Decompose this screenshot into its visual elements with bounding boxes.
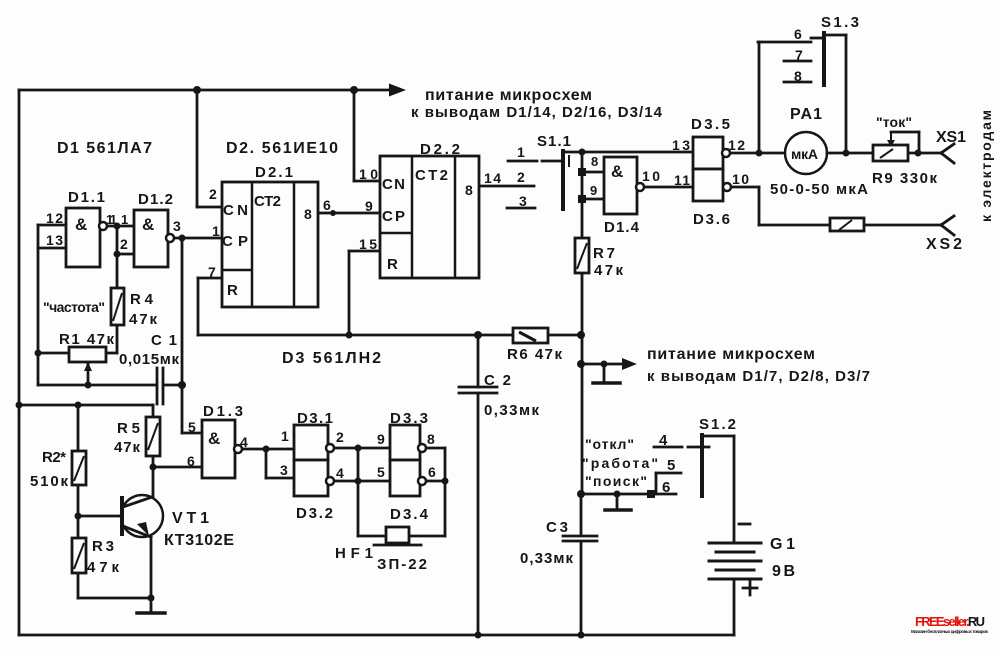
svg-text:8: 8 bbox=[304, 206, 312, 222]
svg-text:VT1: VT1 bbox=[172, 510, 209, 527]
svg-text:PA1: PA1 bbox=[790, 106, 822, 123]
svg-text:S1.1: S1.1 bbox=[537, 133, 571, 150]
svg-text:D3.1: D3.1 bbox=[297, 410, 333, 427]
svg-text:12: 12 bbox=[728, 137, 745, 153]
svg-text:9: 9 bbox=[365, 198, 373, 214]
svg-text:XS2: XS2 bbox=[926, 236, 962, 253]
svg-text:HF1: HF1 bbox=[335, 545, 373, 562]
svg-text:S1.2: S1.2 bbox=[699, 416, 736, 433]
svg-text:R9 330к: R9 330к bbox=[872, 170, 937, 187]
svg-text:D1.1: D1.1 bbox=[68, 189, 105, 206]
svg-text:&: & bbox=[75, 215, 87, 234]
svg-text:D3 561ЛН2: D3 561ЛН2 bbox=[282, 350, 381, 367]
svg-text:&: & bbox=[142, 215, 154, 234]
svg-text:&: & bbox=[611, 162, 623, 181]
svg-text:CN: CN bbox=[382, 176, 405, 193]
svg-text:1: 1 bbox=[121, 212, 128, 227]
svg-text:8: 8 bbox=[591, 154, 598, 169]
svg-text:14: 14 bbox=[484, 170, 501, 186]
svg-text:13: 13 bbox=[46, 232, 63, 248]
svg-text:3: 3 bbox=[280, 462, 288, 478]
svg-text:10: 10 bbox=[732, 171, 749, 187]
svg-text:1: 1 bbox=[212, 223, 220, 239]
svg-text:7: 7 bbox=[795, 47, 803, 63]
svg-text:4: 4 bbox=[240, 434, 248, 450]
svg-text:3: 3 bbox=[519, 193, 527, 209]
svg-text:0,33мк: 0,33мк bbox=[484, 402, 539, 419]
svg-text:D2.2: D2.2 bbox=[420, 141, 460, 158]
svg-text:FREEseller.RU: FREEseller.RU bbox=[915, 614, 985, 629]
svg-text:"работа": "работа" bbox=[582, 455, 658, 471]
svg-text:50-0-50 мкА: 50-0-50 мкА bbox=[770, 181, 868, 198]
svg-text:2: 2 bbox=[517, 169, 525, 185]
svg-text:CT2: CT2 bbox=[415, 167, 448, 184]
svg-text:47к: 47к bbox=[129, 311, 157, 328]
svg-text:9В: 9В bbox=[772, 563, 795, 580]
svg-text:"ток": "ток" bbox=[876, 114, 912, 130]
svg-text:6: 6 bbox=[187, 453, 195, 469]
svg-text:к выводам D1/14, D2/16, D3/14: к выводам D1/14, D2/16, D3/14 bbox=[411, 104, 663, 121]
svg-text:ЗП-22: ЗП-22 bbox=[377, 556, 427, 573]
svg-text:D1 561ЛА7: D1 561ЛА7 bbox=[57, 140, 152, 157]
svg-text:"частота": "частота" bbox=[43, 299, 105, 315]
svg-text:6: 6 bbox=[794, 26, 802, 42]
svg-text:R6 47к: R6 47к bbox=[507, 346, 562, 363]
svg-text:2: 2 bbox=[336, 429, 344, 445]
svg-text:5: 5 bbox=[188, 419, 196, 435]
svg-text:47к: 47к bbox=[594, 262, 623, 279]
svg-text:D1.4: D1.4 bbox=[604, 219, 640, 236]
svg-text:к электродам: к электродам bbox=[978, 110, 994, 222]
svg-text:2: 2 bbox=[209, 186, 217, 202]
svg-text:&: & bbox=[208, 429, 220, 448]
svg-text:D1.2: D1.2 bbox=[138, 191, 173, 208]
svg-text:11: 11 bbox=[106, 212, 117, 227]
svg-text:0,015мк: 0,015мк bbox=[119, 351, 179, 368]
svg-text:11: 11 bbox=[674, 172, 690, 188]
svg-text:4: 4 bbox=[336, 465, 344, 481]
svg-text:R: R bbox=[227, 282, 238, 299]
svg-text:47к: 47к bbox=[114, 439, 140, 456]
svg-text:5: 5 bbox=[377, 464, 385, 480]
svg-text:D2. 561ИЕ10: D2. 561ИЕ10 bbox=[226, 140, 338, 157]
svg-text:6: 6 bbox=[428, 464, 436, 480]
svg-text:КТ3102Е: КТ3102Е bbox=[164, 532, 234, 549]
svg-text:питание микросхем: питание микросхем bbox=[647, 346, 815, 363]
svg-text:6: 6 bbox=[323, 197, 331, 213]
svg-text:R: R bbox=[387, 256, 398, 273]
svg-text:5: 5 bbox=[667, 457, 675, 474]
svg-text:D3.6: D3.6 bbox=[693, 211, 730, 228]
svg-text:9: 9 bbox=[590, 183, 597, 198]
svg-text:R2*: R2* bbox=[42, 449, 66, 466]
svg-text:R1 47к: R1 47к bbox=[59, 331, 114, 348]
svg-text:3: 3 bbox=[173, 218, 181, 234]
svg-text:8: 8 bbox=[427, 431, 435, 447]
svg-text:D1.3: D1.3 bbox=[203, 403, 243, 420]
svg-text:D3.4: D3.4 bbox=[390, 506, 429, 523]
svg-text:8: 8 bbox=[794, 68, 802, 84]
svg-text:D3.3: D3.3 bbox=[390, 410, 428, 427]
svg-text:D2.1: D2.1 bbox=[255, 164, 293, 181]
svg-text:8: 8 bbox=[465, 182, 473, 198]
svg-text:2: 2 bbox=[120, 236, 128, 252]
svg-text:D3.2: D3.2 bbox=[296, 505, 333, 522]
svg-text:мкА: мкА bbox=[791, 146, 818, 162]
svg-text:"откл": "откл" bbox=[585, 436, 634, 452]
svg-text:0,33мк: 0,33мк bbox=[520, 550, 573, 567]
svg-text:D3.5: D3.5 bbox=[691, 116, 730, 133]
svg-text:6: 6 bbox=[662, 479, 670, 496]
svg-text:к выводам D1/7, D2/8, D3/7: к выводам D1/7, D2/8, D3/7 bbox=[647, 368, 870, 385]
svg-text:12: 12 bbox=[46, 210, 63, 226]
svg-text:47к: 47к bbox=[87, 559, 119, 576]
svg-text:"поиск": "поиск" bbox=[585, 473, 647, 489]
svg-text:9: 9 bbox=[377, 431, 385, 447]
svg-text:CT2: CT2 bbox=[254, 193, 281, 210]
svg-text:4: 4 bbox=[659, 432, 668, 449]
svg-text:S1.3: S1.3 bbox=[821, 14, 859, 31]
svg-text:1: 1 bbox=[517, 144, 525, 160]
svg-text:XS1: XS1 bbox=[936, 129, 966, 146]
svg-text:1: 1 bbox=[281, 428, 289, 444]
svg-text:Магазин бесплатных цифровых то: Магазин бесплатных цифровых товаров bbox=[911, 628, 988, 634]
svg-text:7: 7 bbox=[208, 264, 216, 280]
svg-text:питание микросхем: питание микросхем bbox=[425, 87, 592, 104]
